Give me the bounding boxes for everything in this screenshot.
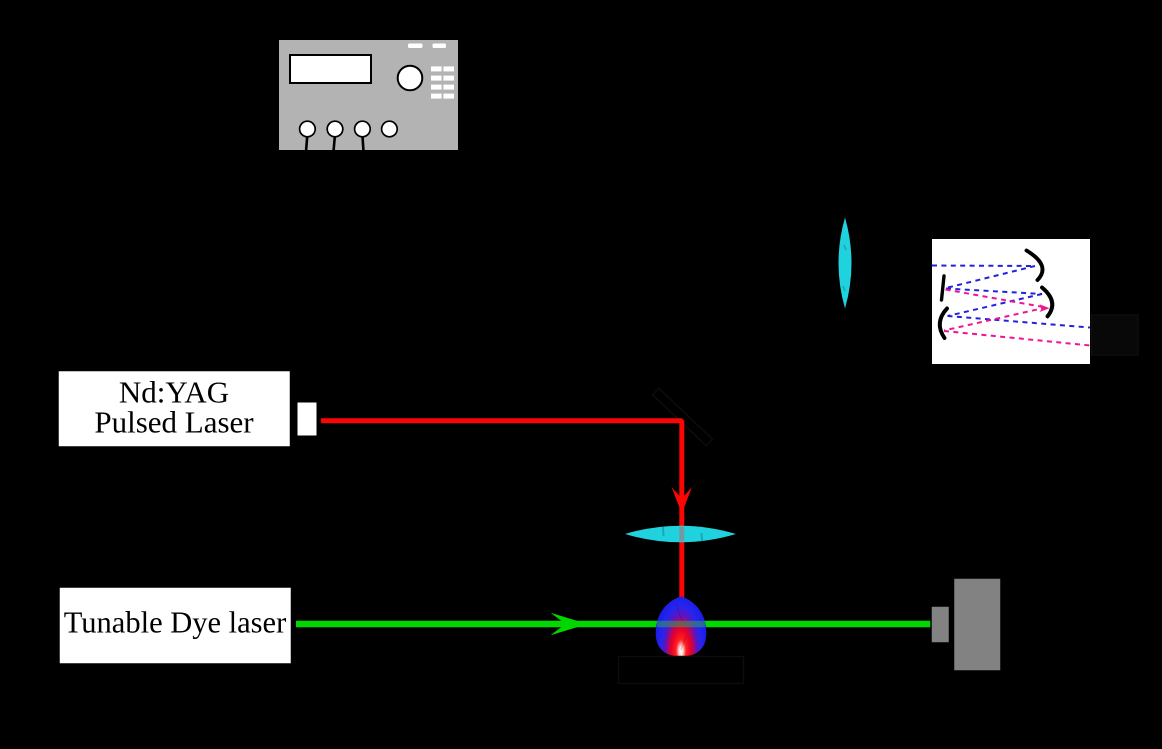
BNC connector 4 — [382, 121, 398, 137]
svg-text:Pulsed Laser: Pulsed Laser — [94, 405, 254, 440]
delay generator box — [278, 39, 459, 152]
magenta beam: exit — [944, 331, 1090, 346]
beam dump front plate — [931, 606, 950, 643]
BNC connector 1 — [300, 121, 316, 137]
green beam arrowhead — [551, 613, 588, 635]
red beam arrowhead — [672, 487, 693, 514]
wire 1 — [306, 137, 307, 152]
PMT detector (faint) — [1092, 315, 1139, 355]
BNC connector 2 — [327, 121, 343, 137]
BNC connector 3 — [355, 121, 371, 137]
monochromator box — [932, 239, 1090, 364]
wire 3 — [363, 137, 364, 152]
wire 2 — [334, 137, 335, 152]
entrance slit mirror — [942, 276, 945, 300]
slot button 2 — [433, 44, 447, 49]
lens shading tick 1 — [662, 527, 665, 536]
beam dump body — [954, 578, 1002, 671]
keypad buttons — [431, 66, 454, 98]
green beam through flame (translucent) — [657, 621, 705, 628]
collection lens (vertical) — [839, 218, 852, 309]
magenta beam: slit to mirror2 — [944, 290, 1090, 346]
slot button 1 — [408, 44, 423, 49]
curved mirror M1 — [1027, 251, 1043, 281]
magenta arrowhead at mirror 2 — [1040, 304, 1050, 312]
blue beam: slit to mirror2 — [946, 289, 1042, 295]
knob — [398, 66, 423, 91]
lens shading tick 2 — [701, 533, 704, 541]
focusing lens (horizontal) — [625, 526, 736, 543]
lens shading tick — [844, 245, 846, 250]
blue beam: mirror2 to mirror3 — [948, 294, 1043, 316]
svg-text:Tunable Dye laser: Tunable Dye laser — [64, 606, 287, 640]
blue beam: mirror1 to slit — [946, 266, 1035, 288]
flame — [656, 597, 707, 657]
blue beam: entry — [932, 266, 1090, 328]
curved mirror M3 — [940, 309, 947, 339]
red Nd:YAG beam (horizontal + vertical with bevel corner) — [321, 421, 682, 603]
magenta beam: mirror2 to mirror3 — [944, 308, 1046, 331]
curved mirror M2 — [1042, 288, 1052, 317]
green dye laser beam — [296, 621, 931, 628]
tunable dye laser box — [59, 587, 293, 665]
burner (dark outline) — [619, 657, 744, 684]
laser output port — [297, 402, 318, 437]
turning mirror (dark, 45 deg) — [653, 388, 713, 445]
blue beam: exit — [948, 316, 1091, 328]
Nd:YAG pulsed laser box — [58, 370, 292, 448]
display screen — [290, 55, 371, 83]
flame streak 2 — [681, 636, 686, 650]
red beam seen through lens — [679, 527, 684, 542]
flame streak 1 — [676, 603, 683, 622]
